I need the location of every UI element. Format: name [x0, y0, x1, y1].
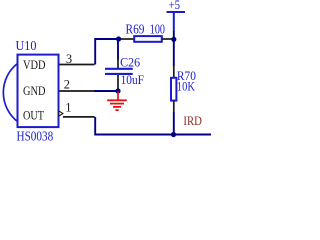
power +5 symbol: [167, 0, 186, 31]
wire pin1 down and IRD rail: [95, 117, 211, 135]
op-amp U10 body rectangle: [18, 55, 59, 128]
svg-text:VDD: VDD: [23, 57, 46, 72]
R70 labels: [177, 68, 196, 93]
pin 2 (GND): [59, 77, 94, 91]
svg-text:U10: U10: [16, 38, 37, 53]
wire pin2 to C26 bottom junction: [94, 90, 118, 92]
HS0038 value label: [17, 129, 54, 144]
svg-text:10uF: 10uF: [121, 72, 144, 87]
svg-text:HS0038: HS0038: [17, 129, 54, 144]
svg-text:+5: +5: [169, 0, 181, 12]
resistor R69: [134, 36, 173, 42]
wire top rail to R69 left: [118, 38, 134, 40]
node junction at C26 bottom / ground: [115, 88, 120, 93]
svg-text:2: 2: [64, 77, 70, 91]
svg-text:1: 1: [65, 101, 71, 115]
U10 designator label: [16, 38, 37, 53]
wire pin3 to top rail (up at x=95.2): [95, 39, 118, 65]
node junction at +5 / R70 top: [171, 37, 176, 42]
resistor R70: [171, 78, 176, 101]
svg-text:OUT: OUT: [23, 107, 44, 122]
svg-text:C26: C26: [120, 54, 140, 69]
wire +5 stem to junction: [173, 31, 175, 39]
U10 lens arc: [3, 64, 16, 121]
R69 labels: [126, 21, 166, 36]
svg-text:3: 3: [66, 52, 72, 66]
node junction at C26 top: [116, 36, 121, 41]
wire junction down to R70: [173, 39, 175, 77]
svg-text:IRD: IRD: [183, 113, 202, 128]
pin name GND: [23, 83, 46, 98]
net label IRD: [183, 113, 202, 128]
svg-text:R69: R69: [126, 21, 145, 36]
svg-text:100: 100: [150, 21, 165, 36]
svg-text:GND: GND: [23, 83, 46, 98]
pin 1 (OUT) with output triangle: [59, 101, 95, 117]
wire R70 bottom to IRD rail: [173, 101, 175, 135]
pin 3 (VDD): [59, 52, 94, 66]
pin name OUT: [23, 107, 44, 122]
svg-text:10K: 10K: [177, 79, 195, 94]
ground: [107, 92, 127, 111]
C26 labels: [120, 54, 144, 87]
pin name VDD: [23, 57, 46, 72]
node junction at R70 bottom / rail: [171, 132, 176, 137]
capacitor C26: [105, 39, 133, 89]
